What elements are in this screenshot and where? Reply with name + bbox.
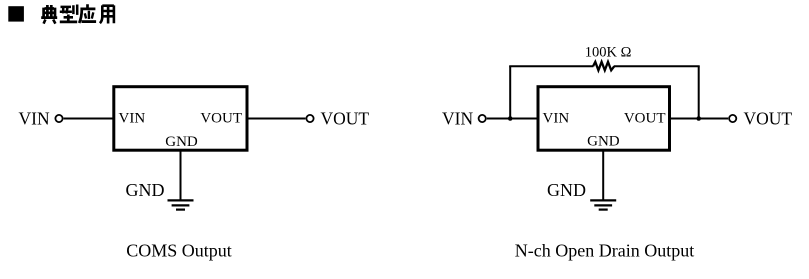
svg-text:VIN: VIN — [119, 111, 146, 127]
junction dot (output net / pull-up right) — [696, 116, 701, 121]
wire: VIN terminal to IC (right) — [487, 118, 537, 120]
terminal VIN (left circuit input) — [55, 115, 62, 122]
wire: left riser to pull-up — [509, 66, 511, 118]
svg-text:VOUT: VOUT — [744, 109, 793, 129]
wire: IC to VOUT terminal (right) — [670, 118, 729, 120]
wire: right riser from pull-up — [698, 66, 700, 118]
char 应 — [79, 4, 96, 23]
junction dot (input net / pull-up left) — [508, 116, 513, 121]
svg-text:VOUT: VOUT — [200, 111, 242, 127]
section header bullet square — [8, 6, 24, 21]
svg-text:N-ch Open Drain Output: N-ch Open Drain Output — [515, 241, 694, 261]
terminal VIN (right circuit input) — [479, 115, 486, 122]
section header title 典型应用 (drawn glyphs) — [41, 4, 114, 23]
ground symbol (left) — [168, 200, 194, 209]
IC body U2 (right) — [538, 87, 670, 151]
char 用 — [100, 5, 114, 23]
svg-text:VOUT: VOUT — [624, 111, 666, 127]
svg-text:GND: GND — [547, 180, 586, 200]
wire: GND pin stub (left) — [180, 151, 182, 201]
terminal VOUT (left circuit output) — [306, 115, 313, 122]
svg-text:GND: GND — [126, 180, 165, 200]
svg-text:100K Ω: 100K Ω — [585, 45, 632, 61]
wire: IC to VOUT terminal (left) — [248, 118, 305, 120]
wire: VIN terminal to IC (left) — [64, 118, 113, 120]
wire: GND pin stub (right) — [602, 151, 604, 201]
svg-text:GND: GND — [165, 134, 198, 150]
IC body U1 (left) — [114, 87, 247, 151]
svg-text:COMS Output: COMS Output — [126, 241, 232, 261]
wire: top rail right of resistor — [614, 65, 700, 67]
svg-text:VIN: VIN — [543, 111, 570, 127]
svg-text:VIN: VIN — [442, 109, 473, 129]
terminal VOUT (right circuit output) — [729, 115, 736, 122]
char 典 — [41, 5, 57, 24]
svg-text:GND: GND — [587, 134, 620, 150]
svg-text:VOUT: VOUT — [321, 109, 370, 129]
char 型 — [60, 5, 77, 22]
wire: top rail left of resistor — [509, 65, 593, 67]
resistor R1 zigzag — [593, 62, 614, 70]
svg-text:VIN: VIN — [19, 109, 50, 129]
ground symbol (right) — [590, 200, 616, 209]
